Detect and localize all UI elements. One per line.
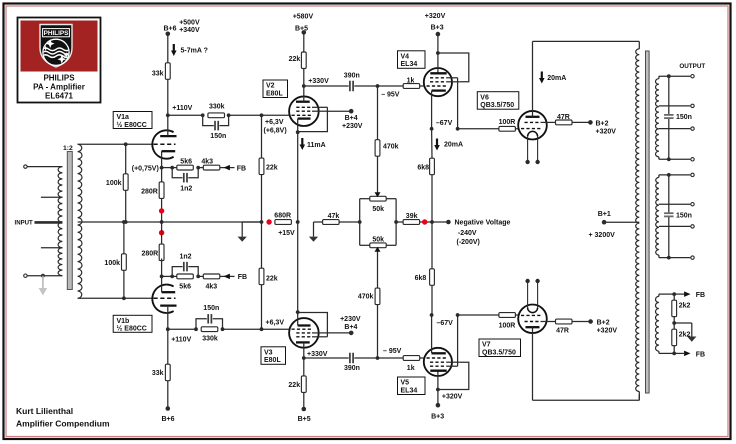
triode V1a xyxy=(152,130,173,158)
V5 screen loop xyxy=(438,362,469,389)
V2 anode xyxy=(296,101,310,103)
resistor 680R xyxy=(275,220,292,225)
junction xyxy=(358,220,362,224)
resistor 22k anode lower xyxy=(303,358,305,376)
V1a grid xyxy=(154,143,176,145)
svg-text:FB: FB xyxy=(238,274,247,281)
V3 cathode line xyxy=(297,222,299,312)
svg-text:V4: V4 xyxy=(401,53,410,60)
svg-text:2k2: 2k2 xyxy=(679,302,691,309)
svg-text:-240V: -240V xyxy=(458,230,477,237)
current arrow 5-7mA xyxy=(173,44,175,52)
junction xyxy=(196,166,200,170)
node B+3 bottom xyxy=(436,403,441,408)
svg-text:QB3.5/750: QB3.5/750 xyxy=(480,102,514,109)
junction xyxy=(376,84,380,88)
svg-text:B+6: B+6 xyxy=(162,416,175,423)
OPT feedback winding xyxy=(658,294,660,296)
resistor 6k8 lower xyxy=(431,222,433,269)
svg-text:22k: 22k xyxy=(288,382,300,389)
svg-text:B+5: B+5 xyxy=(298,416,311,423)
resistor 330k lower xyxy=(201,327,218,332)
junction xyxy=(394,220,398,224)
svg-text:5k6: 5k6 xyxy=(179,283,191,290)
svg-text:+230V: +230V xyxy=(340,316,361,323)
node B+5 top xyxy=(302,30,307,35)
svg-text:6k8: 6k8 xyxy=(417,164,429,171)
T1 primary centre tap xyxy=(35,221,63,224)
svg-text:100k: 100k xyxy=(106,180,122,187)
label box V1b xyxy=(113,315,152,332)
svg-text:20mA: 20mA xyxy=(444,142,463,149)
V5 anode xyxy=(430,370,446,372)
svg-text:V2: V2 xyxy=(266,83,275,90)
svg-text:100R: 100R xyxy=(499,322,516,329)
label box V7 xyxy=(479,339,521,357)
V1b anode xyxy=(160,304,176,306)
svg-text:B+2: B+2 xyxy=(597,319,610,326)
ground wire 47k xyxy=(314,221,323,223)
V6 filament xyxy=(528,131,538,136)
node +330V lower xyxy=(302,356,306,360)
junction xyxy=(673,316,675,323)
wire xyxy=(162,167,177,169)
svg-text:20mA: 20mA xyxy=(547,75,566,82)
V7 filament terminals xyxy=(525,279,529,283)
wire to V3 grid xyxy=(223,328,290,330)
node +110V lower xyxy=(166,327,170,331)
svg-text:1n2: 1n2 xyxy=(180,254,192,261)
svg-text:FB: FB xyxy=(696,292,705,299)
svg-text:– 95V: – 95V xyxy=(381,92,400,99)
wire -67V to 100R lower xyxy=(458,314,499,316)
svg-text:+320V: +320V xyxy=(597,328,618,335)
svg-text:470k: 470k xyxy=(383,144,399,151)
pentode V5 xyxy=(424,348,452,376)
resistor 4k3 upper xyxy=(198,167,203,169)
wire +110V to grid network lower xyxy=(168,328,196,330)
svg-text:330k: 330k xyxy=(202,336,218,343)
red node upper xyxy=(159,208,164,213)
OPT primary xyxy=(636,49,640,392)
V6 anode xyxy=(526,116,540,118)
ground xyxy=(238,237,247,242)
label box V6 xyxy=(477,92,519,110)
T1 primary section 2 xyxy=(58,197,62,222)
V4 suppressor drop xyxy=(457,78,459,129)
input terminal bottom xyxy=(24,274,27,277)
svg-text:+320V: +320V xyxy=(425,13,446,20)
resistor 280R upper xyxy=(161,168,163,182)
OPT core xyxy=(646,51,650,393)
wire xyxy=(354,85,377,87)
resistor 33k lower xyxy=(167,329,169,364)
junction xyxy=(227,113,231,117)
node negative voltage xyxy=(432,221,448,223)
resistor 5k6 upper xyxy=(177,165,194,170)
V5 anode wire xyxy=(437,371,439,406)
svg-text:1k: 1k xyxy=(407,78,415,85)
svg-text:33k: 33k xyxy=(152,71,164,78)
svg-text:B+3: B+3 xyxy=(431,25,444,32)
balance box right xyxy=(386,198,396,200)
T1 primary section 4 xyxy=(58,248,62,276)
FB arrow lower xyxy=(220,275,235,277)
T1 primary section 3 xyxy=(58,222,62,248)
junction xyxy=(170,166,174,170)
svg-text:22k: 22k xyxy=(289,56,301,63)
svg-text:+320V: +320V xyxy=(442,393,463,400)
svg-text:50k: 50k xyxy=(372,206,384,213)
svg-text:150n: 150n xyxy=(676,212,692,219)
svg-text:V1a: V1a xyxy=(117,114,130,121)
junction xyxy=(201,113,205,117)
node B+5 bottom xyxy=(302,407,307,412)
pentode V3 xyxy=(289,318,319,348)
svg-text:+330V: +330V xyxy=(307,351,328,358)
resistor 22k FB upper xyxy=(261,115,263,158)
ground (gray arrow) xyxy=(42,276,44,289)
junction xyxy=(456,127,460,131)
resistor 4k3 lower xyxy=(198,275,203,277)
capacitor 150n upper xyxy=(203,115,214,125)
svg-text:V6: V6 xyxy=(480,94,489,101)
pentode V2 xyxy=(289,96,319,126)
svg-text:Negative Voltage: Negative Voltage xyxy=(455,220,511,227)
junction xyxy=(124,142,128,146)
svg-text:V3: V3 xyxy=(264,349,273,356)
triode V7 xyxy=(518,305,547,334)
junction xyxy=(170,275,174,279)
svg-text:EL34: EL34 xyxy=(401,387,418,394)
resistor 6k8 upper xyxy=(431,129,433,159)
ground xyxy=(687,337,696,342)
FB tap lower xyxy=(674,352,684,354)
V5 grid rows xyxy=(430,365,447,367)
wire xyxy=(515,314,518,316)
ground xyxy=(309,237,318,242)
V2 cathode line xyxy=(297,132,299,222)
svg-text:Kurt Lilienthal: Kurt Lilienthal xyxy=(16,406,73,416)
red node 39k xyxy=(420,221,432,223)
svg-text:5k6: 5k6 xyxy=(180,158,192,165)
junction xyxy=(296,310,300,314)
resistor 100R lower xyxy=(499,313,516,318)
svg-text:680R: 680R xyxy=(274,212,291,219)
svg-text:FB: FB xyxy=(237,165,246,172)
svg-text:22k: 22k xyxy=(266,275,278,282)
svg-text:PA - Amplifier: PA - Amplifier xyxy=(33,83,85,92)
triode V1b xyxy=(152,285,173,313)
svg-text:2k2: 2k2 xyxy=(679,331,691,338)
wire xyxy=(515,128,518,130)
node V1b cathode xyxy=(160,275,164,279)
svg-text:½ E80CC: ½ E80CC xyxy=(117,121,147,129)
V6 filament terminals xyxy=(525,160,529,164)
resistor 47R lower xyxy=(556,319,573,324)
node B+2 upper xyxy=(572,121,590,123)
svg-text:330k: 330k xyxy=(209,104,225,111)
label box V5 xyxy=(398,377,426,395)
svg-text:+330V: +330V xyxy=(308,78,329,85)
wire +110V to grid network xyxy=(168,114,203,116)
junction +6,3V lower xyxy=(260,327,264,331)
wire xyxy=(28,275,63,277)
svg-text:100k: 100k xyxy=(104,260,120,267)
svg-text:1:2: 1:2 xyxy=(63,145,73,152)
svg-text:(+6,8V): (+6,8V) xyxy=(264,127,287,134)
node B+6 bottom xyxy=(166,406,171,411)
svg-text:E80L: E80L xyxy=(264,357,281,364)
svg-text:V5: V5 xyxy=(401,380,410,387)
input terminal top xyxy=(24,165,27,168)
T1 primary section 1 xyxy=(58,167,62,198)
resistor 100k upper xyxy=(125,144,127,222)
V3 screen loop xyxy=(298,313,328,337)
FB tap upper xyxy=(674,293,684,295)
svg-text:470k: 470k xyxy=(358,294,374,301)
svg-text:4k3: 4k3 xyxy=(201,158,213,165)
wire secondary top to V1a grid xyxy=(78,143,153,145)
svg-text:100R: 100R xyxy=(499,119,516,126)
node B+4 upper xyxy=(327,110,351,112)
red node 680R xyxy=(266,219,271,224)
svg-text:5-7mA ?: 5-7mA ? xyxy=(181,48,208,55)
capacitor 390n lower xyxy=(349,353,351,364)
FB arrow upper xyxy=(220,167,235,169)
OPT secondary group 2 with capacitor 150n xyxy=(658,175,660,178)
svg-text:(-200V): (-200V) xyxy=(457,239,480,246)
junction xyxy=(260,220,264,224)
junction xyxy=(41,274,45,278)
svg-text:+320V: +320V xyxy=(596,129,617,136)
label box V1a xyxy=(113,112,152,129)
V3 anode xyxy=(296,341,310,343)
svg-text:47R: 47R xyxy=(556,328,569,335)
T1 primary tap stub xyxy=(41,196,63,198)
node (+0,75V) xyxy=(160,166,164,170)
junction xyxy=(376,356,380,360)
V1a cathode xyxy=(162,150,176,152)
svg-text:11mA: 11mA xyxy=(307,142,326,149)
resistor 5k6 lower xyxy=(177,274,194,279)
svg-text:EL6471: EL6471 xyxy=(45,92,74,101)
junction xyxy=(430,127,434,131)
svg-text:50k: 50k xyxy=(372,236,384,243)
OPT secondary group 1 with capacitor 150n xyxy=(658,76,660,79)
T1 core xyxy=(67,152,72,290)
V7 filament xyxy=(528,308,538,313)
current arrow 20mA mid xyxy=(436,139,438,147)
V2 screen loop xyxy=(298,107,328,131)
V1a anode xyxy=(160,135,176,137)
svg-text:PHILIPS: PHILIPS xyxy=(43,74,75,83)
svg-text:390n: 390n xyxy=(344,72,360,79)
svg-text:+500V: +500V xyxy=(179,19,200,26)
label box V4 xyxy=(398,51,426,69)
resistor 1k upper xyxy=(403,84,420,89)
wire xyxy=(167,34,169,63)
red node lower xyxy=(159,230,164,235)
junction xyxy=(124,220,128,224)
junction xyxy=(122,220,126,224)
junction xyxy=(221,327,225,331)
V6 grid rows xyxy=(525,121,541,123)
wire V6 anode to OPT xyxy=(533,40,640,42)
svg-text:+110V: +110V xyxy=(171,337,191,344)
node B+3 top xyxy=(436,32,441,37)
svg-text:EL34: EL34 xyxy=(401,61,418,68)
resistor 470k lower xyxy=(377,305,379,358)
wire secondary centre tap to bus xyxy=(78,221,262,223)
T1 secondary xyxy=(78,144,82,298)
svg-text:1n2: 1n2 xyxy=(180,186,192,193)
junction xyxy=(296,220,300,224)
svg-text:+110V: +110V xyxy=(172,105,192,112)
svg-text:– 95V: – 95V xyxy=(383,348,402,355)
capacitor 1n2 lower xyxy=(172,267,182,277)
V5 cathode xyxy=(432,352,446,354)
junction xyxy=(436,51,440,55)
svg-text:+6,3V: +6,3V xyxy=(265,119,284,126)
svg-text:PHILIPS: PHILIPS xyxy=(44,30,70,37)
V1b grid xyxy=(154,297,176,299)
svg-text:280R: 280R xyxy=(141,188,158,195)
svg-text:(+0,75V): (+0,75V) xyxy=(132,165,159,172)
svg-text:–67V: –67V xyxy=(436,120,453,127)
svg-text:–67V: –67V xyxy=(437,320,454,327)
svg-text:+230V: +230V xyxy=(342,123,363,130)
node +110V upper xyxy=(166,113,170,117)
svg-text:QB3.5/750: QB3.5/750 xyxy=(482,349,516,356)
junction xyxy=(296,130,300,134)
V1b cathode xyxy=(162,291,176,293)
node B+4 lower xyxy=(327,332,351,334)
svg-text:FB: FB xyxy=(696,351,705,358)
svg-text:V1b: V1b xyxy=(117,318,130,325)
capacitor 390n upper xyxy=(349,81,351,92)
V4 anode wire xyxy=(437,34,439,73)
resistor 100k lower xyxy=(123,222,125,298)
svg-text:150n: 150n xyxy=(210,133,226,140)
V3 cathode xyxy=(298,324,311,326)
wire xyxy=(28,166,63,168)
potentiometer 50k lower xyxy=(370,243,386,248)
junction xyxy=(160,220,164,224)
svg-text:+580V: +580V xyxy=(293,14,314,21)
node B+1 xyxy=(602,220,607,225)
svg-text:B+1: B+1 xyxy=(598,211,611,218)
svg-text:E80L: E80L xyxy=(266,90,283,97)
svg-text:B+3: B+3 xyxy=(431,414,444,421)
svg-text:B+6: B+6 xyxy=(163,25,176,32)
svg-text:6k8: 6k8 xyxy=(415,275,427,282)
svg-text:33k: 33k xyxy=(152,370,164,377)
resistor 1k lower xyxy=(403,356,420,361)
potentiometer 50k upper xyxy=(370,196,386,201)
junction xyxy=(122,296,126,300)
svg-text:4k3: 4k3 xyxy=(206,283,218,290)
resistor 2k2 upper xyxy=(673,294,675,301)
current arrow 20mA right xyxy=(541,72,543,80)
junction xyxy=(430,313,434,317)
triode V6 xyxy=(518,111,547,140)
wire +330V row lower xyxy=(304,357,349,359)
svg-text:22k: 22k xyxy=(266,164,278,171)
V4 screen loop xyxy=(438,53,469,82)
svg-text:47k: 47k xyxy=(328,213,340,220)
resistor 470k upper xyxy=(377,86,379,140)
V4 anode xyxy=(430,72,446,74)
resistor 22k FB lower xyxy=(261,222,263,268)
node +330V upper xyxy=(302,84,306,88)
wire to V2 grid xyxy=(229,114,290,116)
label box V3 xyxy=(261,347,286,365)
svg-text:B+4: B+4 xyxy=(344,324,357,331)
balance box left xyxy=(359,199,361,246)
V4 cathode xyxy=(432,89,446,91)
V7 grid rows xyxy=(521,314,541,316)
svg-text:OUTPUT: OUTPUT xyxy=(679,63,705,70)
ground wire xyxy=(674,322,692,324)
wire xyxy=(354,357,377,359)
resistor 47k xyxy=(323,220,340,225)
svg-text:47R: 47R xyxy=(557,114,570,121)
wire secondary bottom to V1b grid xyxy=(78,297,153,299)
svg-text:280R: 280R xyxy=(141,250,158,257)
resistor 100R upper xyxy=(499,126,516,131)
resistor 47R upper xyxy=(556,120,573,125)
svg-text:V7: V7 xyxy=(482,342,491,349)
resistor 39k xyxy=(396,221,404,223)
wire xyxy=(162,275,177,277)
wire -67V to 100R upper xyxy=(458,128,499,130)
svg-text:B+2: B+2 xyxy=(596,121,609,128)
junction xyxy=(436,388,440,392)
current arrow 11mA xyxy=(301,138,303,146)
capacitor 150n lower xyxy=(196,319,207,329)
label box V2 xyxy=(263,80,288,98)
junction xyxy=(430,220,434,224)
junction xyxy=(194,327,198,331)
ground wire xyxy=(242,221,261,223)
svg-text:½ E80CC: ½ E80CC xyxy=(117,325,147,333)
svg-text:390n: 390n xyxy=(344,365,360,372)
svg-text:39k: 39k xyxy=(406,213,418,220)
node B+2 lower xyxy=(572,321,591,323)
svg-text:150n: 150n xyxy=(203,305,219,312)
V3 grid rows xyxy=(296,336,312,338)
wire xyxy=(359,221,361,223)
svg-text:1k: 1k xyxy=(407,365,415,372)
junction xyxy=(456,313,460,317)
svg-text:+ 3200V: + 3200V xyxy=(589,232,616,239)
junction xyxy=(196,275,200,279)
wiper arrow upper xyxy=(375,192,381,197)
svg-text:150n: 150n xyxy=(676,114,692,121)
resistor 330k upper xyxy=(208,113,225,118)
wiper arrow lower xyxy=(375,247,381,252)
junction +6,3V upper xyxy=(260,113,264,117)
svg-text:B+5: B+5 xyxy=(295,25,308,32)
svg-text:+6,3V: +6,3V xyxy=(266,320,285,327)
wire +330V row upper xyxy=(304,85,349,87)
T1 primary tap stub xyxy=(41,247,63,249)
pentode V4 xyxy=(424,68,452,96)
V2 grid rows xyxy=(296,106,312,108)
wire V7 anode to OPT xyxy=(533,399,640,401)
resistor 280R lower xyxy=(161,222,163,246)
